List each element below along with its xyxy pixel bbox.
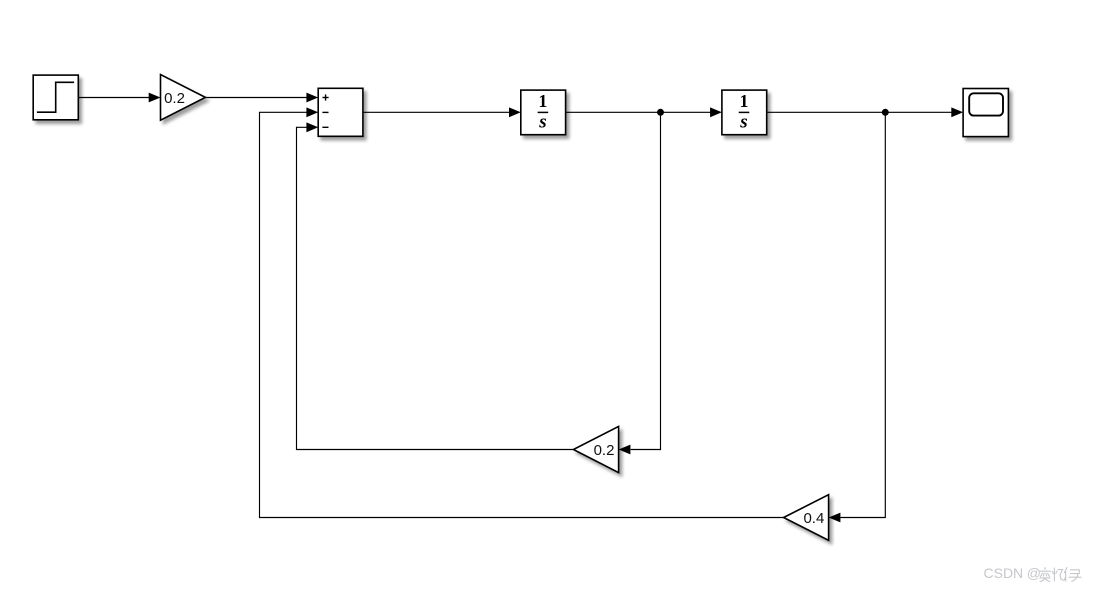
gain K1 (0.2) xyxy=(161,75,206,121)
node A (branch after integrator I1) xyxy=(657,109,664,116)
svg-text:@: @ xyxy=(1027,565,1041,581)
arrowhead into sum input 3 xyxy=(306,122,318,132)
pin label - (sum input 3) xyxy=(322,126,328,128)
sum block U1 xyxy=(318,88,363,136)
arrowhead into integrator I1 xyxy=(509,107,521,117)
arrowhead into gain K1 xyxy=(149,93,161,103)
wire: gain K3 to sum input 2 xyxy=(260,112,784,517)
svg-text:1: 1 xyxy=(740,91,749,111)
value label 1/s (integrator I1) xyxy=(538,91,549,133)
arrowhead into sum input 2 xyxy=(306,107,318,117)
integrator I2 (1/s) xyxy=(722,90,767,135)
gain K2 (0.2 feedback) xyxy=(573,426,618,472)
svg-text:CSDN: CSDN xyxy=(984,565,1024,581)
svg-text:0.2: 0.2 xyxy=(594,442,615,459)
pin label - (sum input 2) xyxy=(322,111,328,113)
svg-text:s: s xyxy=(739,112,747,133)
wire: integrator I2 to scope xyxy=(767,111,952,113)
wire: sum output to integrator I1 xyxy=(363,111,510,113)
wire: integrator I1 to integrator I2 xyxy=(566,111,711,113)
wire: node B down to gain K3 (outer feedback) xyxy=(840,112,885,517)
svg-text:1: 1 xyxy=(538,91,547,111)
node B (branch after integrator I2) xyxy=(882,109,889,116)
pin label + (sum input 1) xyxy=(323,94,329,100)
scope screen icon xyxy=(969,93,1003,115)
gain K3 (0.4 feedback) xyxy=(784,495,829,541)
integrator I1 (1/s) xyxy=(521,90,566,135)
arrowhead into integrator I2 xyxy=(710,107,722,117)
arrowhead into sum + input xyxy=(306,93,318,103)
wire: gain K1 to sum + input xyxy=(205,97,307,99)
wire: gain K2 to sum input 3 xyxy=(297,127,574,449)
svg-text:0.2: 0.2 xyxy=(164,90,185,107)
wire: step output to gain K1 xyxy=(78,97,149,99)
value label 1/s (integrator I2) xyxy=(739,91,750,133)
svg-text:0.4: 0.4 xyxy=(803,510,824,527)
svg-text:s: s xyxy=(538,112,546,133)
step icon xyxy=(37,82,74,112)
scope block xyxy=(963,89,1008,137)
arrowhead into gain K3 xyxy=(829,513,841,523)
watermark CJK glyphs (hand drawn) xyxy=(1040,568,1082,582)
wire: node A down to gain K2 (inner feedback) xyxy=(631,112,661,449)
arrowhead into gain K2 xyxy=(619,445,631,455)
arrowhead into scope xyxy=(951,107,963,117)
step source block xyxy=(33,75,78,120)
